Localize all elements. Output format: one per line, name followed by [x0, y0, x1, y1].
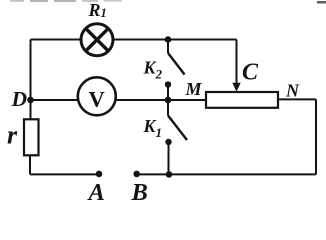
svg-text:C: C: [242, 60, 259, 86]
svg-text:A: A: [87, 179, 105, 206]
resistor r: [24, 119, 39, 155]
rheostat wiper arrowhead C: [232, 83, 240, 92]
svg-text:D: D: [11, 87, 28, 111]
node: K1 top junction on middle wire: [165, 97, 172, 104]
svg-text:N: N: [285, 80, 300, 100]
wire: top wire left segment (corner to lamp): [31, 39, 81, 41]
wire: rheostat N end to right rail: [278, 98, 316, 100]
node: K1 lower contact: [165, 139, 171, 145]
wire: vertical drop from top wire to rheostat arrow: [236, 40, 238, 84]
node: K2 top junction: [165, 36, 172, 43]
wire: top wire right segment (lamp to corner at C branch): [114, 39, 237, 41]
voltmeter V: [78, 77, 116, 115]
svg-text:M: M: [185, 79, 203, 99]
rheostat MN: [206, 92, 278, 108]
terminal B: [133, 171, 140, 178]
lamp R1: [81, 24, 113, 56]
svg-text:r: r: [7, 121, 18, 150]
wire: bottom wire right segment (terminal B to right rail): [137, 173, 316, 175]
wire: bottom wire left segment (to terminal A): [30, 173, 99, 175]
node: K1 bottom junction on bottom wire: [166, 171, 173, 178]
switch K1: [168, 100, 187, 174]
node: K2 lower contact: [165, 81, 171, 87]
node D: [27, 97, 34, 104]
terminal A: [96, 171, 103, 178]
svg-text:V: V: [89, 87, 105, 112]
wire: middle wire left segment (D to voltmeter): [31, 99, 79, 101]
wire: middle wire right segment (voltmeter to rheostat M end): [116, 99, 206, 101]
wire: resistor bottom stub: [29, 155, 31, 174]
wire: right rail: [315, 99, 317, 174]
svg-text:B: B: [131, 179, 148, 206]
wire: left rail from top corner down to resistor top: [30, 40, 32, 120]
switch K2: [168, 40, 185, 101]
wire: top-left cut-off text remnants: [10, 0, 326, 4]
